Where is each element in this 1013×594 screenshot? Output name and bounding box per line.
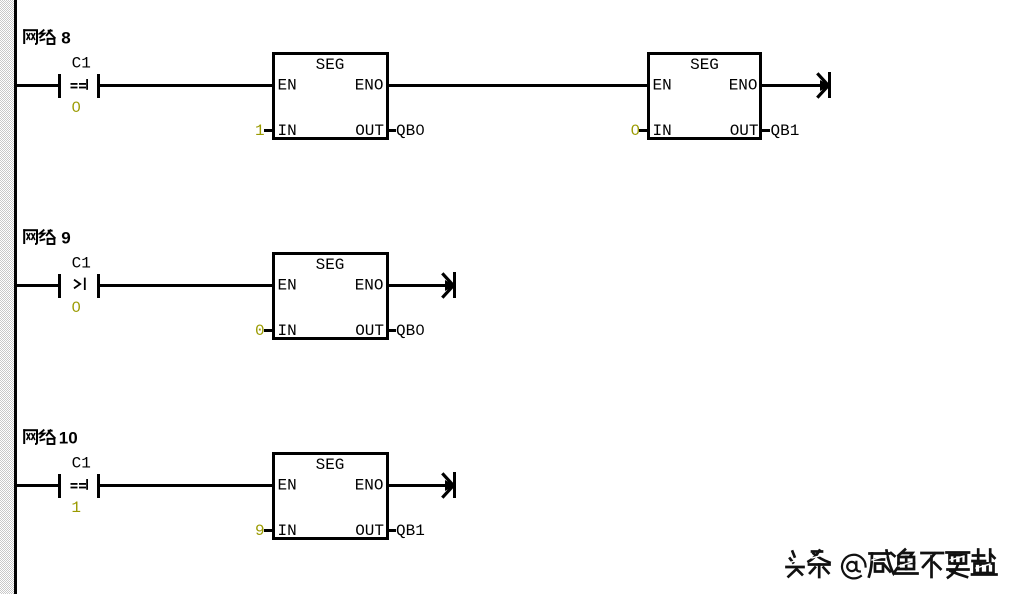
contact C1 left bar, net 10: [58, 474, 61, 498]
svg-text:ENO: ENO: [355, 476, 384, 494]
contact C1 right bar: [97, 74, 100, 98]
svg-text:EN: EN: [278, 276, 297, 294]
zero glyph dot masks: [75, 105, 637, 331]
svg-text:OUT: OUT: [355, 322, 384, 340]
watermark glyph 鱼: [896, 550, 918, 574]
svg-text:EN: EN: [653, 76, 672, 94]
SEG box U1 border: [272, 52, 389, 140]
svg-text:IN: IN: [278, 322, 297, 340]
contact C1 left bar, net 9: [58, 274, 61, 298]
contact compare symbol >I: [74, 278, 86, 290]
network 10 label glyph 络: [39, 429, 55, 444]
contact C1 right bar, net 10: [97, 474, 100, 498]
svg-text:OUT: OUT: [355, 122, 384, 140]
rung continuation arrow, net 8: [817, 72, 831, 98]
svg-text:SEG: SEG: [690, 56, 719, 74]
svg-text:ENO: ENO: [355, 276, 384, 294]
network 8 label 网 inner crosses: [27, 33, 35, 40]
svg-text:ENO: ENO: [355, 76, 384, 94]
contact compare symbol ==I: [71, 79, 89, 90]
svg-text:OUT: OUT: [730, 122, 759, 140]
SEG box U1 IN stub wire: [264, 129, 272, 132]
SEG box U2 OUT stub wire: [762, 129, 770, 132]
wire: contact to SEG box, net 9: [100, 284, 272, 287]
wire: SEG box to rung end arrow, net 10: [389, 484, 449, 487]
wire: rail to contact, net 8: [17, 84, 58, 87]
SEG box U2 border: [647, 52, 762, 140]
svg-text:C1: C1: [72, 55, 91, 73]
contact C1 right bar, net 9: [97, 274, 100, 298]
SEG box U4 border: [272, 452, 389, 540]
left power rail: [14, 0, 17, 594]
contact compare symbol ==I, net 10: [71, 479, 89, 490]
watermark glyph 盐: [972, 550, 997, 575]
svg-text:0: 0: [255, 322, 265, 340]
svg-text:SEG: SEG: [316, 56, 345, 74]
svg-text:QB1: QB1: [771, 122, 800, 140]
wire: contact to SEG box 1, net 8: [100, 84, 272, 87]
SEG box U4 IN stub wire: [264, 529, 272, 532]
svg-text:IN: IN: [278, 122, 297, 140]
svg-text:1: 1: [71, 499, 81, 517]
svg-text:9: 9: [255, 522, 265, 540]
svg-text:IN: IN: [278, 522, 297, 540]
network 9 label glyph 网: [23, 229, 38, 244]
rung continuation arrow, net 10: [442, 472, 456, 498]
svg-text:10: 10: [59, 429, 78, 448]
SEG box U3 border: [272, 252, 389, 340]
watermark glyph 咸: [869, 551, 897, 577]
watermark glyph 头: [787, 552, 804, 577]
SEG box U4 OUT stub wire: [389, 529, 396, 532]
wire: rail to contact, net 10: [17, 484, 58, 487]
network 8 label glyph 络: [39, 29, 55, 44]
svg-text:C1: C1: [72, 455, 91, 473]
left margin strip: [0, 0, 14, 594]
watermark highlight streaks: [789, 554, 990, 568]
network 8 label glyph 网: [23, 29, 38, 44]
wire: SEG box 2 to rung end arrow, net 8: [762, 84, 824, 87]
watermark at-sign: [842, 555, 866, 579]
svg-text:SEG: SEG: [316, 456, 345, 474]
svg-text:IN: IN: [653, 122, 672, 140]
svg-text:ENO: ENO: [729, 76, 758, 94]
network 10 label 网 inner crosses: [27, 433, 35, 440]
wire: contact to SEG box, net 10: [100, 484, 272, 487]
svg-text:8: 8: [61, 29, 70, 48]
svg-text:9: 9: [61, 229, 70, 248]
watermark glyph 要: [947, 553, 970, 578]
network 10 label glyph 网: [23, 429, 38, 444]
SEG box U1 OUT stub wire: [389, 129, 396, 132]
rung continuation arrow, net 9: [442, 272, 456, 298]
svg-text:EN: EN: [278, 76, 297, 94]
wire: rail to contact, net 9: [17, 284, 58, 287]
watermark glyph 不: [922, 553, 944, 577]
wire: SEG box to rung end arrow, net 9: [389, 284, 449, 287]
network 9 label glyph 络: [39, 229, 55, 244]
network 9 label 网 inner crosses: [27, 233, 35, 240]
SEG box U2 IN stub wire: [639, 129, 647, 132]
svg-text:EN: EN: [278, 476, 297, 494]
svg-text:OUT: OUT: [355, 522, 384, 540]
contact C1 left bar: [58, 74, 61, 98]
watermark glyph 条: [809, 551, 830, 578]
SEG box U3 OUT stub wire: [389, 329, 396, 332]
svg-text:SEG: SEG: [316, 256, 345, 274]
svg-text:QB1: QB1: [396, 522, 425, 540]
svg-text:C1: C1: [72, 255, 91, 273]
SEG box U3 IN stub wire: [264, 329, 272, 332]
svg-text:1: 1: [255, 122, 265, 140]
wire: SEG box 1 to SEG box 2, net 8: [389, 84, 648, 87]
